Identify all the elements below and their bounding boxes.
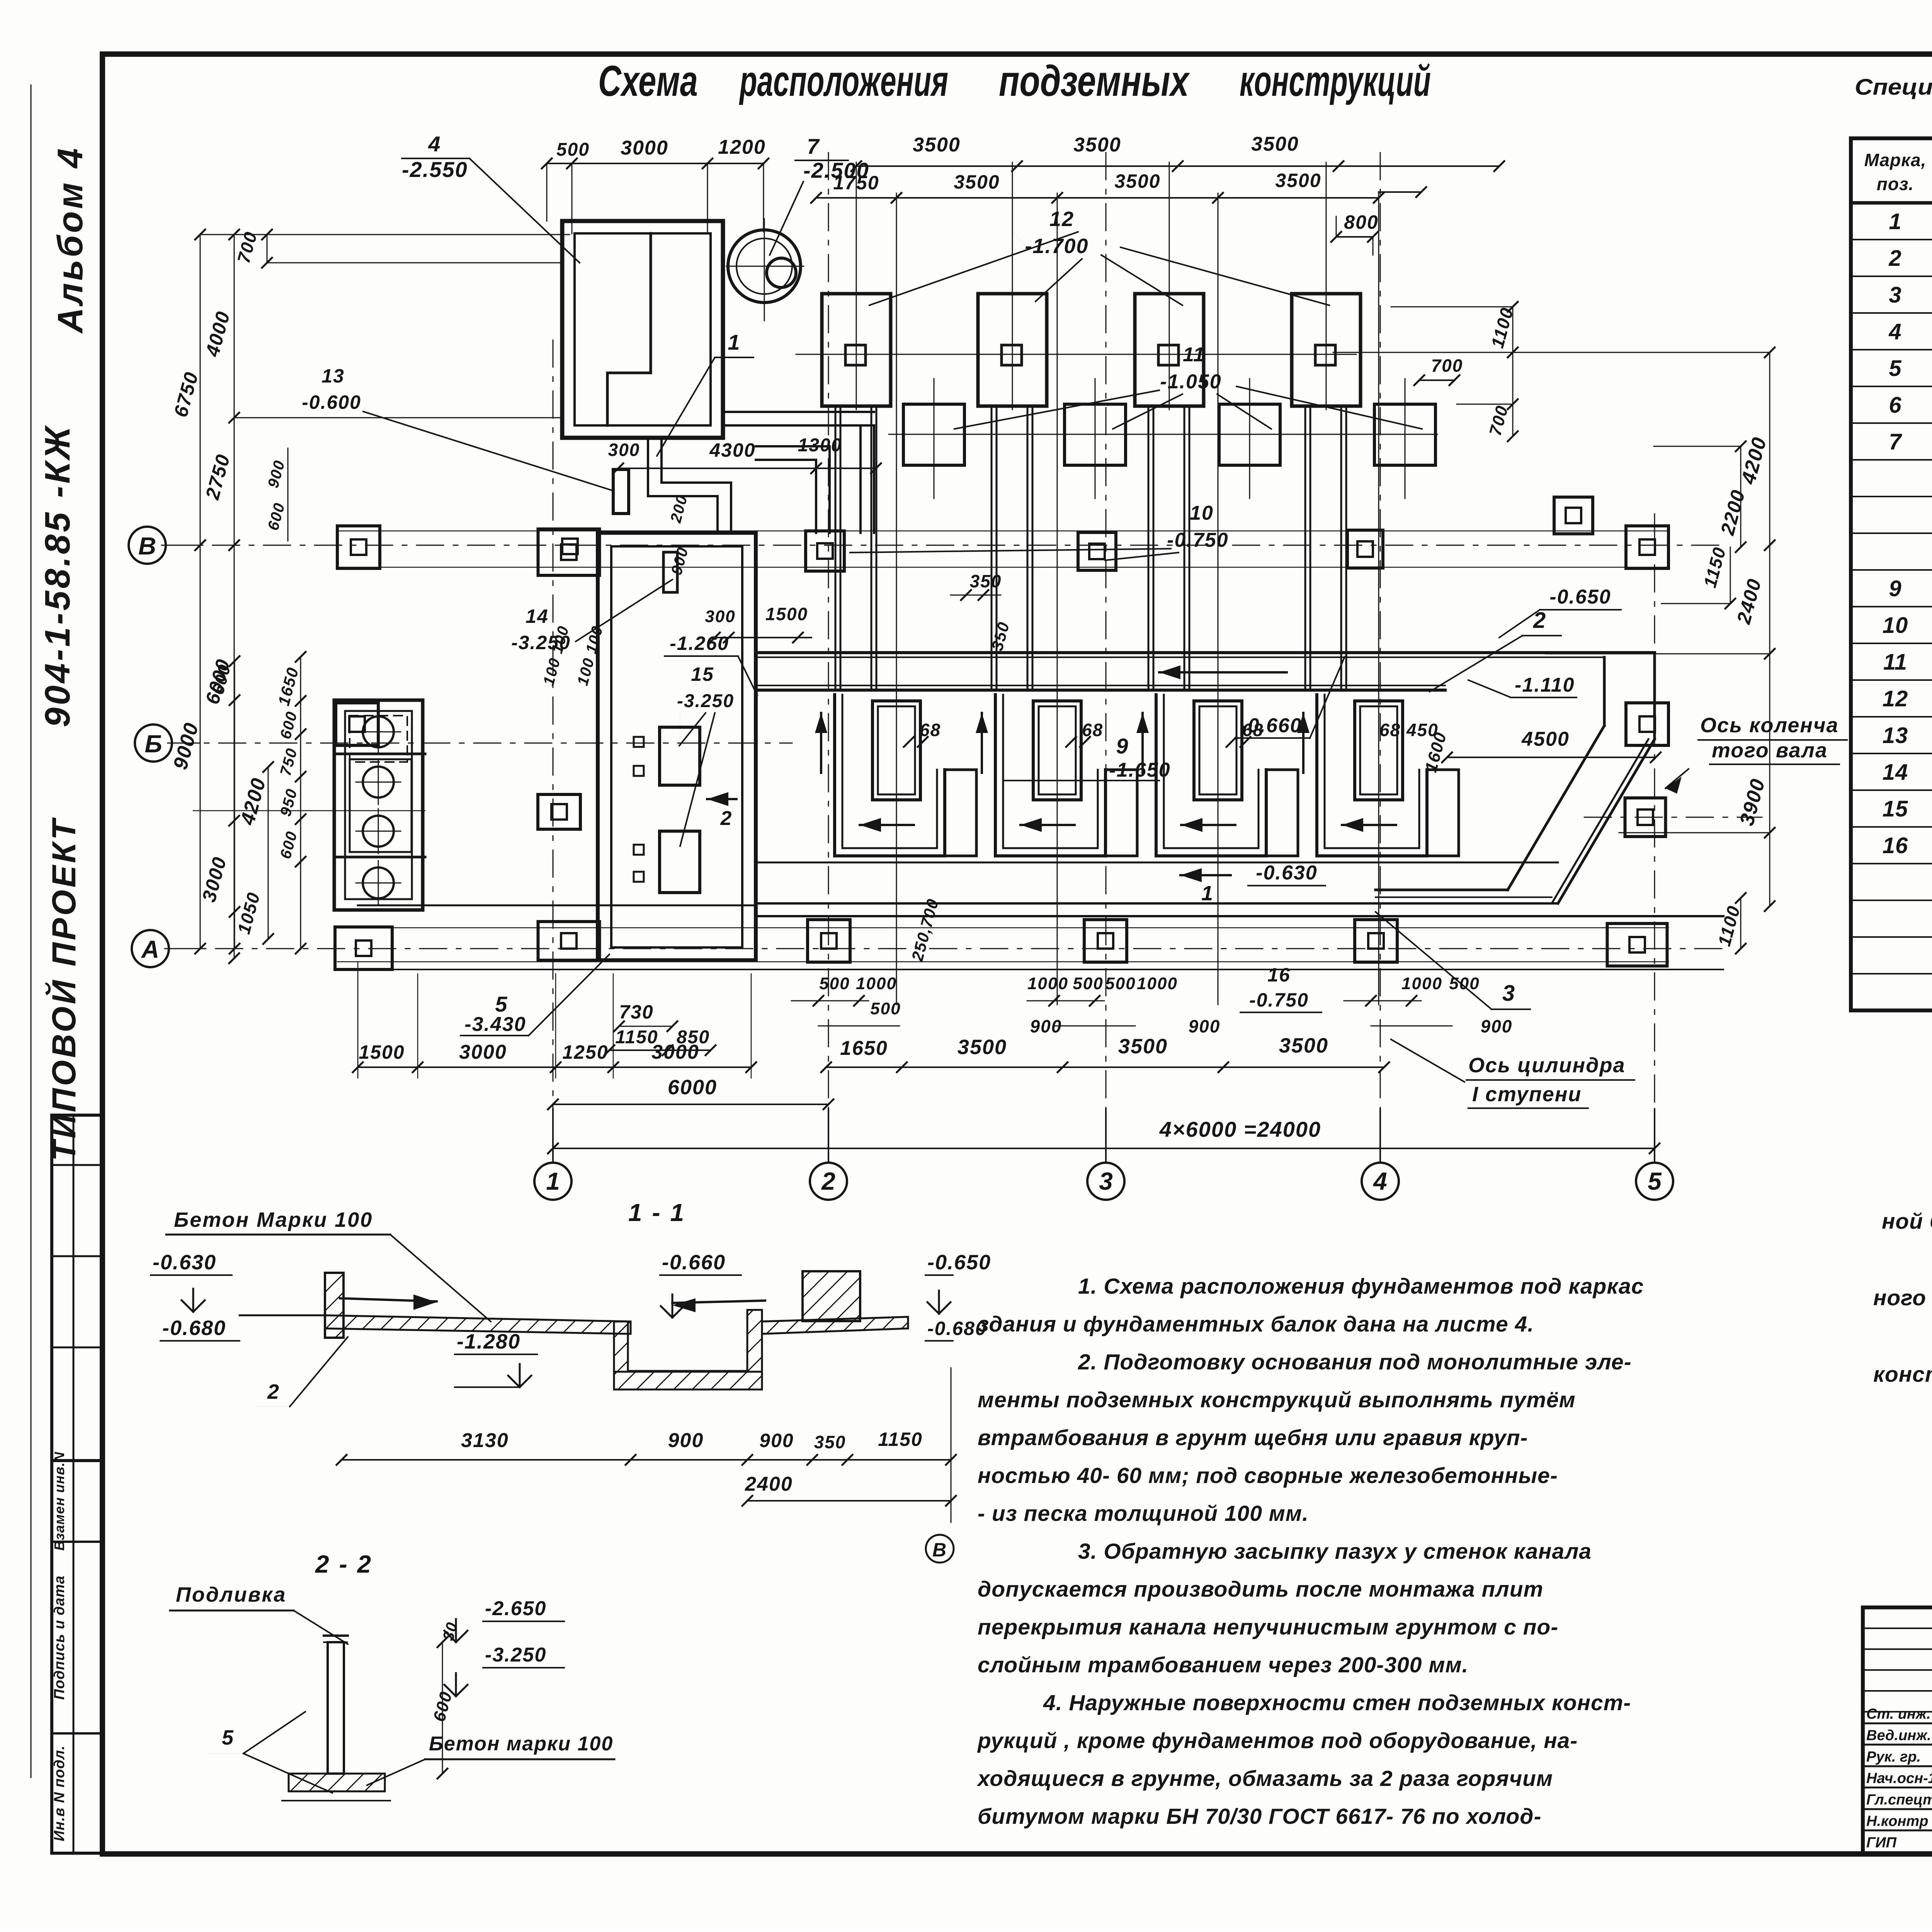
svg-text:900: 900 [1189,1016,1221,1036]
svg-text:Альбом 4: Альбом 4 [51,146,90,334]
svg-text:-0.750: -0.750 [1167,529,1228,551]
4500 dim [1447,757,1656,758]
well K2 (pos 7) [728,230,801,303]
svg-text:3000: 3000 [621,137,668,159]
misc verticals pads [896,193,897,580]
svg-text:3500: 3500 [913,134,961,156]
svg-text:Ст. инж.: Ст. инж. [1866,1706,1931,1722]
svg-text:1650: 1650 [840,1037,888,1060]
svg-text:слойным трамбованием че: слойным трамбованием через 200-300 мм. [978,1653,1469,1677]
svg-text:-3.250: -3.250 [511,632,571,653]
svg-text:Ин.в N подл.: Ин.в N подл. [51,1745,68,1841]
svg-text:350: 350 [970,571,1002,591]
svg-text:14: 14 [1883,760,1908,785]
svg-text:1: 1 [728,330,740,354]
svg-text:14: 14 [526,605,549,627]
svg-text:1000: 1000 [1027,974,1068,993]
svg-text:4300: 4300 [709,439,755,461]
svg-text:рукций , кроме фундаментов: рукций , кроме фундаментов под оборудова… [977,1728,1578,1753]
svg-text:1500: 1500 [359,1041,405,1063]
canal from pit to basement [648,438,718,533]
title block signatures [1863,1607,1932,1853]
equipment foundations top row (pos 12) [822,294,891,406]
left dim chains [200,235,201,949]
svg-text:500: 500 [556,139,590,160]
equipment foundations mid row (pos 11) [903,404,964,465]
row axis lines [162,545,1723,546]
svg-text:904-1-58.85 -КЖ: 904-1-58.85 -КЖ [38,424,77,727]
svg-text:-0.660: -0.660 [662,1251,726,1274]
svg-text:Марка,: Марка, [1864,150,1927,170]
svg-text:ностью 40- 60 мм; под св: ностью 40- 60 мм; под сворные железобето… [978,1463,1558,1488]
svg-text:5: 5 [222,1726,234,1749]
svg-text:Ось коленча: Ось коленча [1700,714,1839,737]
svg-text:2: 2 [821,1167,835,1195]
svg-text:Бетон марки 100: Бетон марки 100 [429,1733,613,1755]
canal cells (pos 9 / KN1) [872,701,920,800]
svg-text:здания и фундаментных бало: здания и фундаментных балок дана на лист… [978,1312,1534,1337]
svg-text:3500: 3500 [1114,170,1160,192]
left inner dim columns [300,657,301,949]
svg-text:300: 300 [705,607,735,626]
svg-text:3. Обратную засыпку паз: 3. Обратную засыпку пазух у стенок канал… [1078,1539,1592,1564]
svg-text:9: 9 [1116,734,1129,758]
pit -2.550 (pos 4) [562,221,723,438]
svg-text:3: 3 [1502,981,1515,1006]
svg-text:-0.630: -0.630 [1256,862,1317,884]
svg-text:В: В [138,532,156,560]
svg-text:-3.430: -3.430 [464,1013,526,1036]
svg-text:-1.260: -1.260 [670,633,729,654]
svg-text:расположения: расположения [739,57,948,105]
left margin cells [52,1461,102,1853]
svg-text:4: 4 [1888,319,1901,344]
svg-text:Бетон Марки 100: Бетон Марки 100 [174,1208,373,1231]
svg-text:3500: 3500 [1279,1034,1328,1057]
bottom main dim chains [358,1066,751,1068]
svg-text:900: 900 [1481,1016,1513,1036]
svg-text:2 - 2: 2 - 2 [315,1550,372,1578]
svg-text:2: 2 [1533,608,1546,633]
svg-text:1150: 1150 [878,1429,923,1450]
svg-text:5: 5 [1889,356,1901,381]
svg-text:12: 12 [1049,207,1074,231]
svg-text:1500: 1500 [765,604,808,624]
svg-text:16: 16 [1267,964,1291,986]
svg-text:13: 13 [1883,723,1908,748]
left wall hatched [325,1273,344,1338]
svg-text:15: 15 [1883,796,1908,821]
svg-text:2: 2 [720,807,733,830]
svg-text:Н.контр: Н.контр [1866,1813,1928,1830]
priyamok (pos 13) [613,469,629,514]
svg-text:7: 7 [1889,429,1902,454]
svg-text:3500: 3500 [1118,1035,1168,1058]
svg-text:4. Наружные поверхности: 4. Наружные поверхности стен подземных к… [1043,1690,1631,1715]
axis circles [534,1163,571,1200]
svg-text:730: 730 [619,1001,653,1023]
svg-text:500: 500 [1073,974,1103,993]
svg-text:3500: 3500 [957,1036,1007,1059]
svg-text:А: А [141,935,159,963]
svg-text:перекрытия канала непуч: перекрытия канала непучинистым грунтом с… [978,1615,1558,1639]
svg-text:850: 850 [677,1027,710,1048]
svg-text:500: 500 [1449,974,1480,993]
pit walls [614,1321,628,1372]
svg-text:- из песка толщиной 10: - из песка толщиной 100 мм. [978,1501,1309,1526]
svg-text:Схема: Схема [598,57,698,105]
svg-text:7: 7 [807,134,820,158]
svg-text:500: 500 [1105,974,1136,993]
svg-text:900: 900 [1030,1016,1062,1036]
svg-text:3500: 3500 [1275,170,1321,191]
building bottom beam lines [358,905,756,906]
svg-text:-1.110: -1.110 [1515,674,1575,696]
svg-text:500: 500 [870,999,901,1018]
svg-text:-0.630: -0.630 [153,1251,216,1274]
svg-text:конструкций: конструкций [1240,57,1431,105]
svg-text:10: 10 [1883,613,1908,638]
scan fold line left [31,85,32,1777]
canal bend to the right (pos 3) [1603,657,1606,726]
svg-text:16: 16 [1883,833,1908,858]
svg-text:900: 900 [759,1430,794,1451]
svg-text:6: 6 [1889,393,1901,418]
svg-text:3: 3 [1889,282,1901,308]
svg-text:700: 700 [1431,355,1463,376]
svg-text:4: 4 [428,132,441,156]
svg-text:Нач.осн-1: Нач.осн-1 [1866,1770,1932,1787]
svg-text:Вед.инж.: Вед.инж. [1866,1728,1931,1744]
svg-text:ТИПОВОЙ ПРОЕКТ: ТИПОВОЙ ПРОЕКТ [45,817,83,1161]
svg-text:11: 11 [1883,650,1907,675]
svg-text:3130: 3130 [461,1429,509,1452]
reservoir REm1 (pos 6) [334,700,423,910]
svg-text:1: 1 [1889,209,1901,234]
svg-text:-2.550: -2.550 [402,157,468,182]
witness verticals bottom [357,974,359,1078]
svg-text:-3.250: -3.250 [677,691,734,711]
svg-text:1200: 1200 [718,136,766,158]
svg-text:2. Подготовку основания: 2. Подготовку основания под монолитные э… [1078,1350,1632,1374]
svg-text:68.450: 68.450 [1379,720,1439,740]
svg-text:2: 2 [1888,246,1901,271]
svg-text:1750: 1750 [833,172,879,194]
svg-text:1. Схема расположения фундаме: 1. Схема расположения фундаментов под ка… [1078,1274,1644,1299]
svg-text:68: 68 [1082,720,1103,740]
svg-text:-0.750: -0.750 [1249,989,1309,1011]
svg-text:68: 68 [1242,720,1264,740]
svg-text:3500: 3500 [1073,134,1121,156]
svg-text:1000: 1000 [1401,974,1442,993]
svg-text:1300: 1300 [798,435,842,456]
svg-text:-3.250: -3.250 [485,1644,546,1666]
svg-text:6000: 6000 [668,1076,717,1099]
right blocks [803,1271,860,1321]
svg-text:Рук. гр.: Рук. гр. [1866,1749,1921,1765]
svg-text:1 - 1: 1 - 1 [628,1199,685,1226]
floor slab [325,1315,631,1334]
svg-text:5: 5 [1648,1167,1662,1195]
svg-text:2400: 2400 [745,1473,793,1495]
svg-text:-1.280: -1.280 [457,1330,520,1353]
svg-text:13: 13 [321,365,345,387]
svg-text:Б: Б [145,730,162,758]
svg-text:ходящиеся в грунте, обмазать: ходящиеся в грунте, обмазать за 2 раза г… [976,1766,1553,1791]
svg-text:68: 68 [920,720,941,740]
svg-text:I ступени: I ступени [1472,1083,1582,1106]
svg-text:3: 3 [1099,1167,1113,1195]
svg-text:битумом марки БН 70/30: битумом марки БН 70/30 ГОСТ 6617- 76 по … [978,1804,1542,1829]
svg-text:-0.650: -0.650 [927,1251,991,1274]
svg-text:1250: 1250 [562,1041,608,1063]
left margin revision table [52,1115,102,1461]
svg-text:Подливка: Подливка [176,1583,286,1606]
svg-text:15: 15 [691,663,714,685]
svg-text:1000: 1000 [1137,974,1178,993]
svg-text:2: 2 [267,1380,280,1403]
svg-text:1: 1 [1201,882,1214,905]
svg-text:конструкций даны отме: конструкций даны отметки низа конструкци… [1873,1362,1932,1387]
svg-text:900: 900 [668,1429,704,1452]
svg-text:поз.: поз. [1877,174,1914,194]
svg-text:-1.050: -1.050 [1160,371,1221,393]
canal right of basement top [756,460,816,533]
svg-text:5: 5 [495,992,508,1016]
svg-text:4: 4 [1372,1167,1387,1195]
dimensions top [547,163,764,164]
svg-text:-2.650: -2.650 [485,1597,546,1620]
svg-text:11: 11 [1183,344,1205,366]
svg-text:Ось цилиндра: Ось цилиндра [1468,1054,1626,1077]
svg-text:-0.650: -0.650 [1549,586,1611,608]
svg-text:Взамен инв.N: Взамен инв.N [51,1452,67,1551]
svg-text:12: 12 [1883,686,1908,711]
flow arrows [413,1294,437,1310]
svg-text:-0.600: -0.600 [302,391,361,413]
svg-text:ной битумной грунтовке.: ной битумной грунтовке. [1882,1209,1932,1234]
svg-text:втрамбования в грунт ще: втрамбования в грунт щебня или гравия кр… [978,1425,1528,1450]
svg-text:того вала: того вала [1712,739,1828,762]
svg-text:1000: 1000 [856,974,897,993]
callout 1 with arrow [1180,874,1231,876]
right side dims [1512,307,1514,436]
svg-text:-0.680: -0.680 [162,1316,226,1340]
svg-text:3000: 3000 [459,1041,507,1063]
svg-text:допускается производить: допускается производить после монтажа пл… [978,1577,1543,1602]
svg-text:подземных: подземных [999,57,1190,105]
svg-text:менты подземных конструк: менты подземных конструкций выполнять пу… [978,1388,1576,1412]
svg-text:350: 350 [814,1432,846,1452]
collector canal (pos 2) [756,651,1655,654]
svg-text:3500: 3500 [1251,133,1299,155]
svg-text:4500: 4500 [1521,728,1570,750]
column axis lines [553,340,554,1163]
svg-text:9: 9 [1889,576,1901,601]
svg-text:300: 300 [608,440,640,460]
row V and A beam lines [337,531,1668,532]
svg-text:Гл.спецто: Гл.спецто [1866,1792,1932,1808]
svg-text:-1.650: -1.650 [1109,759,1170,781]
svg-text:4×6000 =24000: 4×6000 =24000 [1159,1117,1321,1141]
svg-text:800: 800 [1344,211,1378,233]
svg-text:ГИП: ГИП [1866,1835,1897,1851]
svg-text:1: 1 [546,1167,560,1195]
basement (pos 5) [598,533,756,960]
svg-text:Спецификация к схеме расположе: Спецификация к схеме расположения подзем… [1855,75,1932,100]
bottom small dim clusters [791,1000,869,1002]
svg-text:В: В [932,1539,947,1561]
svg-text:500: 500 [819,974,850,993]
svg-text:ного раствора марки: ного раствора марки 150. [1873,1286,1932,1310]
svg-text:10: 10 [1190,502,1214,524]
svg-text:3500: 3500 [954,171,1000,193]
section 1-1 dims [342,1459,951,1461]
specification table [1851,138,1932,1010]
svg-text:1150: 1150 [615,1027,658,1048]
svg-text:Подпись и дата: Подпись и дата [51,1575,68,1700]
column footings [337,526,380,568]
